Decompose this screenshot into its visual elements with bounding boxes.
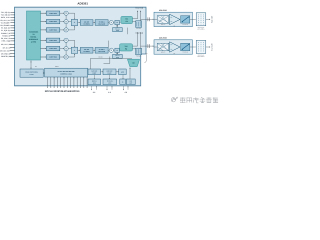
pin RESETB_IN: [1, 55, 15, 58]
coupling capacitor G2Cc: [148, 44, 149, 48]
digital interface block (LVDS/CMOS I/F): [27, 11, 41, 60]
IC outline U1 (AD9361 chip body): [15, 7, 147, 86]
wires aux row links: [94, 75, 124, 79]
interpolation filter T1F1: [78, 20, 93, 26]
aux ADC block A1: [88, 69, 101, 75]
input matching balun G1B: [154, 16, 169, 27]
svg-text:RF PLLS: RF PLLS: [107, 81, 113, 83]
summer T1SUM: [71, 19, 77, 25]
svg-text:LFCN-2000+: LFCN-2000+: [197, 56, 205, 58]
wire TX1 pins up: [135, 7, 143, 21]
svg-text:12-BIT: 12-BIT: [92, 73, 96, 75]
svg-text:VCO: VCO: [93, 83, 96, 85]
upconversion mixer T1MX: [108, 20, 113, 24]
wire LO2 routing: [104, 57, 110, 64]
external crystal symbol: [144, 53, 147, 62]
coupler G1C: [181, 16, 190, 26]
pin EN_AGC_IO: [1, 37, 15, 40]
mixer T2M2: [60, 47, 68, 51]
amplifier module box G1U: [154, 12, 192, 26]
pin RX_FRAME+: [0, 24, 15, 27]
svg-text:DIG GAIN: DIG GAIN: [98, 51, 105, 53]
coupling capacitor G1Cc: [148, 17, 149, 21]
wires aux row1 links: [101, 70, 119, 73]
svg-text:BALUN: BALUN: [161, 52, 165, 54]
svg-text:GEN: GEN: [116, 30, 119, 32]
svg-text:PA: PA: [173, 25, 175, 27]
svg-text:TX1 BAL: TX1 BAL: [136, 28, 141, 30]
svg-text:TX FIR &: TX FIR &: [99, 21, 105, 23]
DAC block T22: [41, 46, 60, 50]
wire TX2 pins up: [135, 32, 143, 49]
svg-text:CONTROL LOGIC: CONTROL LOGIC: [60, 73, 72, 75]
wire DCXO feed: [91, 57, 132, 70]
wires B2 bottom pins: [47, 77, 88, 88]
summer T2SUM: [71, 47, 77, 53]
svg-text:CIC INT: CIC INT: [84, 21, 89, 23]
svg-text:4 4: 4 4: [93, 91, 96, 94]
DAC block T11: [41, 11, 60, 15]
svg-text:4 4: 4 4: [108, 91, 111, 94]
filter T2F2: [93, 48, 108, 54]
DAC block T23: [41, 55, 60, 59]
bottom pin labels: [45, 90, 80, 93]
svg-text:CIC INT: CIC INT: [84, 49, 89, 51]
svg-text:CLK: CLK: [129, 81, 132, 83]
DAC block T13: [41, 28, 60, 32]
svg-text:TX2A TX2B: TX2A TX2B: [135, 33, 143, 35]
pin TX_FRAME+: [1, 21, 15, 24]
pin SPI_DO_OUT: [0, 49, 15, 52]
wire TX monitor link: [127, 28, 129, 35]
mixer T2M1: [60, 38, 68, 42]
gain step box TX2G: [113, 48, 119, 52]
svg-text:IO: IO: [122, 82, 123, 84]
DAC block T21: [41, 38, 60, 42]
svg-text:BBPLL: BBPLL: [55, 66, 59, 68]
svg-text:SPI CLK 100 SPI DI 447 4A6 GPI: SPI CLK 100 SPI DI 447 4A6 GPIO 41: [45, 90, 80, 93]
svg-text:4 4: 4 4: [125, 91, 128, 94]
svg-text:ADL5320: ADL5320: [159, 36, 167, 39]
pin SPI_ENB_IN: [1, 52, 15, 55]
mixer T1M2: [60, 20, 68, 24]
mixer T1M1: [60, 11, 68, 15]
pin ENABLE_IN: [1, 32, 15, 35]
radio switching control block B1: [20, 69, 43, 77]
output TX2 OUT: [206, 43, 214, 50]
svg-text:VCO: VCO: [108, 83, 111, 85]
pin P0_D[11:6]+: [1, 27, 15, 30]
svg-text:TX2 OUT: TX2 OUT: [211, 43, 214, 50]
wire mixer column T1: [65, 15, 67, 27]
svg-text:BB PLL: BB PLL: [92, 81, 97, 83]
svg-text:Minicircuits: Minicircuits: [198, 54, 205, 56]
PA driver TX2PA: [119, 44, 132, 51]
svg-text:TCM1-63: TCM1-63: [182, 24, 188, 26]
mixer T1M3: [60, 28, 68, 32]
svg-text:12-BIT DAC: 12-BIT DAC: [49, 30, 57, 32]
coupler G2C: [181, 43, 190, 53]
svg-text:FILTERS: FILTERS: [84, 23, 90, 25]
PA driver TX1PA: [119, 16, 132, 23]
GPO drive block C3: [120, 79, 126, 85]
svg-text:12-BIT DAC: 12-BIT DAC: [49, 57, 57, 59]
wire TX2 differential outputs: [133, 46, 141, 49]
wire TX1 differential outputs: [133, 19, 141, 22]
interpolation filter T2F1: [78, 48, 93, 54]
mixer T2M3: [60, 55, 68, 59]
aux DAC block A2: [103, 69, 116, 75]
wire C3 to DCXO: [129, 68, 130, 79]
svg-text:CLOCK MULTIPLIER AND: CLOCK MULTIPLIER AND: [58, 71, 75, 73]
filter T1F2: [93, 20, 108, 26]
svg-text:TX1 OUT: TX1 OUT: [211, 16, 214, 23]
LPF filter G1F: [190, 13, 206, 31]
input matching balun G2B: [154, 43, 169, 54]
svg-text:DIG GAIN: DIG GAIN: [98, 23, 105, 25]
svg-text:10-BIT: 10-BIT: [108, 73, 112, 75]
wire elbows into summer T1: [68, 13, 75, 30]
svg-text:GPO: GPO: [121, 72, 124, 74]
amplifier module box G2U: [154, 40, 192, 54]
pin FB_CLK_IN+: [0, 19, 15, 22]
svg-text:AUX DAC: AUX DAC: [107, 71, 113, 73]
svg-text:BALUN: BALUN: [161, 24, 165, 26]
DCXO oscillator: [127, 59, 139, 66]
pin TX1_D[5:0]+: [1, 11, 15, 14]
svg-text:12-BIT DAC: 12-BIT DAC: [49, 48, 57, 50]
pin TXNRX_IN: [2, 34, 15, 37]
svg-text:TX1A TX1B: TX1A TX1B: [135, 7, 143, 9]
DAC block T12: [41, 19, 60, 23]
BB PLL block C1: [88, 79, 101, 85]
pin CTRL_IN[3]: [2, 40, 15, 43]
balun TX1BAL: [136, 21, 142, 30]
pin SPI_CLK_IN: [1, 43, 15, 46]
wire mixer column T2: [65, 42, 67, 55]
clock out block C4: [126, 79, 135, 85]
wire B1 to B2: [43, 72, 44, 73]
svg-text:FILTERS: FILTERS: [84, 51, 90, 53]
clock multiplier control block B2: [45, 68, 88, 77]
balun TX2BAL: [136, 48, 142, 57]
watermark logo icon: [171, 97, 178, 102]
svg-text:LOGIC: LOGIC: [29, 74, 33, 76]
power amplifier G2A: [169, 42, 180, 55]
svg-text:12-BIT DAC: 12-BIT DAC: [49, 40, 57, 42]
svg-text:AUX ADC: AUX ADC: [91, 71, 97, 73]
svg-text:ADL5320: ADL5320: [159, 9, 167, 12]
wire TX2 to external amp: [141, 45, 154, 46]
svg-text:OUT: OUT: [129, 83, 132, 85]
pin TX2_D[5:0]+: [1, 14, 15, 17]
LPF filter G2F: [190, 40, 206, 58]
svg-text:TCM1-63: TCM1-63: [182, 52, 188, 54]
svg-text:12-BIT DAC: 12-BIT DAC: [49, 13, 57, 15]
pin DATA_CLK+: [1, 16, 15, 19]
wire interface to B1: [30, 60, 37, 68]
svg-text:LFCN-2250+: LFCN-2250+: [197, 29, 205, 31]
pin P1_D[11:6]+: [1, 29, 15, 32]
wire gain control stub: [108, 41, 110, 48]
wire elbows into summer T2: [68, 40, 75, 57]
output TX1 OUT: [206, 16, 214, 23]
wires aux bottom pins: [91, 86, 128, 94]
LO generator box TX1LO: [113, 25, 123, 32]
svg-text:PA: PA: [173, 53, 175, 55]
RF PLL block C2: [103, 79, 117, 85]
pin SPI_DI_IO: [3, 46, 15, 49]
svg-text:RADIO SWITCHING: RADIO SWITCHING: [25, 72, 37, 74]
LO generator box TX2LO: [113, 52, 123, 58]
GPO block A3: [119, 69, 127, 75]
wire TX1 to external amp: [141, 19, 154, 20]
watermark text: [180, 97, 218, 103]
svg-text:12-BIT DAC: 12-BIT DAC: [49, 21, 57, 23]
svg-text:TX2 BAL: TX2 BAL: [136, 56, 141, 58]
upconversion mixer T2MX: [108, 48, 113, 52]
gain step box TX1G: [113, 20, 119, 24]
power amplifier G1A: [169, 14, 180, 27]
svg-text:AD9361: AD9361: [77, 1, 88, 5]
svg-text:TX FIR &: TX FIR &: [99, 49, 105, 51]
svg-text:Minicircuits: Minicircuits: [198, 27, 205, 29]
